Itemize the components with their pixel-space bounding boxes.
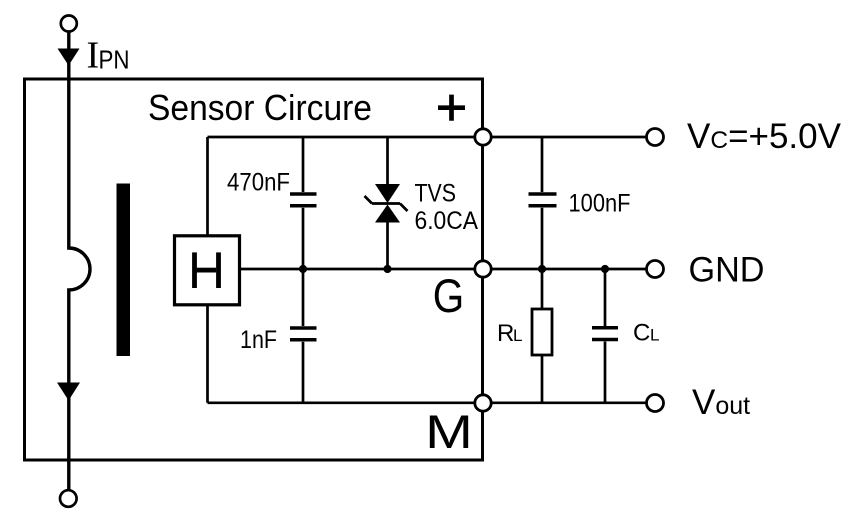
svg-text:Sensor Circure: Sensor Circure [148,87,372,128]
arrow primary bottom [57,383,80,401]
outer box sensor module [25,79,483,460]
hall element H box [175,236,240,305]
terminal + on box edge [475,129,491,145]
wire inner left top [206,137,209,236]
terminal GND external [647,261,664,278]
junction dot C1/middle rail [299,265,307,273]
capacitor C3 100nF [541,137,544,192]
terminal Vout external [647,395,664,412]
capacitor C1 470nF [302,137,305,192]
svg-text:1nF: 1nF [240,326,277,354]
wire GND rail [483,268,655,271]
resistor RL [541,269,544,309]
junction dot CL/GND [601,265,609,273]
svg-text:L: L [650,326,659,345]
wire inner box top rail [208,136,483,139]
svg-text:6.0CA: 6.0CA [415,207,479,235]
svg-text:VC=+5.0V: VC=+5.0V [687,117,842,156]
arrow IPN top [58,49,80,66]
label + (supply pin) [438,95,465,121]
capacitor CL [604,269,607,326]
capacitor C2 1nF [302,269,305,326]
svg-text:L: L [513,326,522,345]
svg-text:GND: GND [689,251,765,290]
svg-text:M: M [425,407,473,459]
wire primary vertical with hop [69,32,90,491]
svg-text:TVS: TVS [415,179,457,207]
svg-text:R: R [497,320,514,347]
junction dot TVS/middle rail [383,265,391,273]
primary conductor bar [117,184,131,357]
TVS diode D1 bidirectional [386,137,389,185]
svg-text:470nF: 470nF [227,169,290,197]
terminal top-left [61,16,77,32]
svg-text:100nF: 100nF [569,190,631,218]
wire Vout rail [483,401,655,404]
wire inner left bottom [206,305,209,403]
svg-text:C: C [633,320,650,347]
letter H [192,252,197,288]
svg-text:G: G [433,270,464,323]
terminal M on box edge [475,395,491,411]
terminal Vc external [647,129,664,146]
terminal G on box edge [475,261,491,277]
wire Vc rail [483,136,655,139]
terminal bottom-left [60,490,77,507]
junction dot 100nF/GND [538,265,546,273]
svg-text:PN: PN [99,47,130,75]
wire middle rail G [240,268,483,271]
wire inner bottom rail [208,401,483,404]
svg-text:I: I [87,35,100,77]
